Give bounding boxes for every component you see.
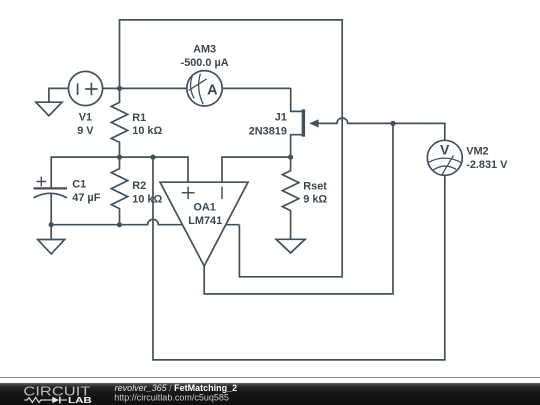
footer bar bbox=[0, 383, 540, 405]
node Rset top junction bbox=[288, 155, 293, 160]
svg-text:9 kΩ: 9 kΩ bbox=[303, 193, 327, 205]
resistor R1 bbox=[111, 88, 127, 157]
svg-text:V1: V1 bbox=[79, 112, 92, 124]
svg-text:A: A bbox=[207, 83, 218, 99]
wire V1 right to AM3 bbox=[103, 87, 187, 89]
ammeter AM3 bbox=[187, 71, 222, 106]
wire J1 gate to VM2 top with hop over x=342 wire bbox=[317, 118, 445, 140]
svg-text:-2.831 V: -2.831 V bbox=[466, 159, 508, 171]
svg-text:J1: J1 bbox=[275, 112, 287, 124]
svg-text:R1: R1 bbox=[132, 112, 146, 124]
svg-text:http://circuitlab.com/c5uq585: http://circuitlab.com/c5uq585 bbox=[114, 392, 229, 402]
node divider tap junction bbox=[150, 155, 155, 160]
node C1 ground rail junction bbox=[49, 222, 54, 227]
transistor J1 source lead bbox=[291, 135, 303, 158]
node V1 plus junction bbox=[117, 86, 122, 91]
op-amp plus input mark bbox=[182, 187, 195, 199]
capacitor C1 bbox=[34, 187, 68, 189]
ground at V1 minus bbox=[49, 88, 69, 102]
wire C1 top lead, mid rail, op-amp plus input lead bbox=[51, 157, 188, 187]
wire op-amp output feedback to gate node bbox=[204, 123, 393, 294]
svg-text:-500.0 µA: -500.0 µA bbox=[181, 57, 229, 69]
resistor Rset bbox=[282, 157, 298, 239]
wire AM3 right to J1 drain corner bbox=[222, 87, 291, 89]
svg-text:R2: R2 bbox=[132, 180, 146, 192]
transistor J1 gate arrow bbox=[311, 120, 319, 127]
svg-text:2N3819: 2N3819 bbox=[249, 125, 287, 137]
op-amp minus input mark bbox=[221, 187, 223, 199]
svg-text:Rset: Rset bbox=[303, 180, 327, 192]
svg-text:OA1: OA1 bbox=[193, 202, 215, 214]
svg-text:10 kΩ: 10 kΩ bbox=[132, 193, 162, 205]
wire op-amp minus input lead to Rset top node bbox=[222, 157, 291, 182]
node R2 bottom rail junction bbox=[117, 222, 122, 227]
svg-text:LM741: LM741 bbox=[188, 215, 222, 227]
node R1 R2 divider junction bbox=[117, 155, 122, 160]
svg-text:9 V: 9 V bbox=[77, 125, 94, 137]
wire bottom-left ground rail with hop over x=153 wire bbox=[51, 219, 239, 224]
CircuitLab logo resistor diode squiggle bbox=[24, 398, 52, 403]
ground at Rset bottom bbox=[276, 239, 305, 253]
svg-text:LAB: LAB bbox=[68, 396, 92, 405]
svg-text:V: V bbox=[440, 141, 450, 157]
separator hairline above footer bbox=[0, 377, 540, 378]
wire top rail loop from V1+ node up, across, down right side to lower-left rail bbox=[120, 20, 343, 277]
svg-text:AM3: AM3 bbox=[193, 44, 216, 56]
svg-text:47 µF: 47 µF bbox=[72, 192, 100, 204]
transistor J1 2N3819 drain lead bbox=[291, 88, 303, 111]
svg-text:10 kΩ: 10 kΩ bbox=[132, 125, 162, 137]
svg-text:C1: C1 bbox=[72, 179, 86, 191]
wire divider node down, across bottom, up to VM2 bottom bbox=[153, 157, 445, 360]
transistor J1 channel bar bbox=[302, 109, 305, 136]
ground at C1 bottom bbox=[50, 225, 52, 240]
voltage source V1 bbox=[68, 71, 102, 105]
resistor R2 bbox=[111, 157, 127, 225]
voltmeter VM2 bbox=[427, 140, 462, 175]
op-amp U OA1 triangle bbox=[160, 182, 248, 266]
node gate feedback junction bbox=[390, 121, 395, 126]
svg-text:VM2: VM2 bbox=[466, 145, 488, 157]
